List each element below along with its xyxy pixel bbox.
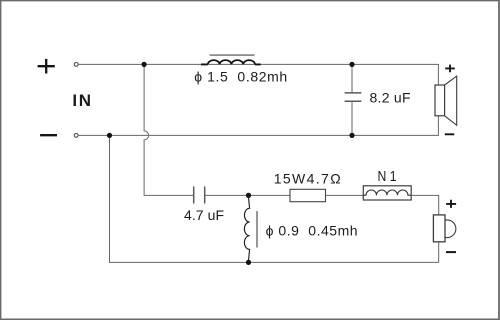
- inductor N1 coil: [363, 190, 411, 195]
- inductor N1 box: [363, 186, 411, 200]
- woofer - mark: [445, 133, 455, 135]
- inductor L1 coil 0.82mh: [208, 60, 255, 64]
- junction node M: [246, 193, 251, 198]
- junction node on minus rail: [107, 133, 112, 138]
- svg-text:ϕ 0.9 0.45mh: ϕ 0.9 0.45mh: [266, 222, 358, 238]
- tweeter + mark: [446, 200, 456, 208]
- wire N1 to tweeter: [411, 195, 439, 215]
- junction dot C1 bottom: [349, 133, 354, 138]
- junction dot C1 top: [349, 62, 354, 67]
- junction node A (top tap): [142, 62, 147, 67]
- wire tap vertical with hop over minus rail: [144, 64, 193, 195]
- wire minus rail: [79, 116, 439, 136]
- inductor L1 core bar: [210, 54, 255, 56]
- wire left vertical to bottom rail: [110, 135, 439, 262]
- junction node B (bottom): [246, 260, 251, 265]
- wire tweeter bottom: [438, 242, 440, 263]
- input + symbol: [38, 59, 55, 74]
- terminal circle -: [74, 134, 78, 138]
- svg-text:IN: IN: [72, 91, 91, 110]
- wire mid branch: [206, 194, 291, 196]
- svg-text:ϕ 1.5 0.82mh: ϕ 1.5 0.82mh: [194, 69, 287, 85]
- inductor L1 leads: [201, 63, 261, 65]
- resistor R1 box: [290, 189, 326, 201]
- capacitor C1 plates: [345, 93, 362, 101]
- capacitor C1 8.2uF vertical: [351, 64, 353, 135]
- woofer speaker body: [435, 85, 445, 116]
- capacitor C2 4.7uF plates: [194, 187, 205, 204]
- input - symbol: [40, 134, 57, 136]
- shunt inductor L2 vertical coil: [244, 195, 249, 262]
- wire top (+ rail): [79, 64, 439, 85]
- tweeter dome: [445, 220, 456, 238]
- svg-text:15W4.7Ω: 15W4.7Ω: [274, 170, 341, 186]
- woofer + mark: [445, 65, 455, 73]
- shunt inductor L2 core line: [256, 211, 258, 248]
- terminal circle +: [74, 63, 78, 67]
- tweeter - mark: [446, 251, 456, 253]
- svg-text:N 1: N 1: [378, 169, 397, 185]
- woofer horn: [445, 76, 457, 125]
- wire R1 to N1: [326, 194, 364, 196]
- svg-text:8.2 uF: 8.2 uF: [370, 90, 411, 106]
- svg-text:4.7 uF: 4.7 uF: [184, 207, 224, 223]
- tweeter body: [433, 215, 445, 242]
